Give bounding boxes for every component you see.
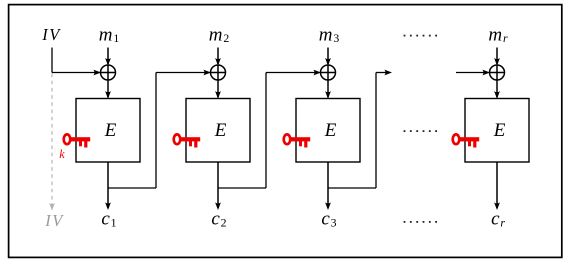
key icon k1 [64, 134, 90, 147]
xor gate X2 [211, 65, 226, 80]
ellipsis dots (top row) [404, 35, 437, 37]
wire IV passthrough (gray dashed) [49, 74, 55, 211]
wire chaining input into XOR_r [456, 70, 490, 76]
key icon k2 [174, 134, 201, 147]
wire XOR2 to E2 [215, 80, 221, 99]
key icon k_r [453, 134, 480, 147]
svg-text:E: E [324, 120, 337, 141]
wire E1 output to c1 [105, 162, 111, 210]
xor gate X_r [490, 65, 505, 80]
block cipher E1 (box) [76, 99, 140, 163]
wire m2 into XOR2 [215, 48, 221, 66]
wire E3 output to c3 [325, 162, 331, 210]
wire XOR3 to E3 [325, 80, 331, 99]
svg-text:k: k [59, 147, 65, 161]
wire feedback from c1 to XOR2 [108, 70, 211, 188]
wire m3 into XOR3 [325, 48, 331, 66]
wire XOR_r to E_r [494, 80, 500, 99]
xor gate X3 [321, 65, 336, 80]
wire E2 output to c2 [215, 162, 221, 210]
wire feedback from c3 to XOR4 [328, 70, 392, 188]
ellipsis dots (bottom row) [404, 221, 437, 223]
key icon k3 [284, 134, 311, 147]
wire m1 into XOR1 [105, 48, 111, 66]
svg-text:E: E [104, 120, 117, 141]
svg-text:E: E [214, 120, 227, 141]
svg-text:E: E [493, 120, 506, 141]
wire feedback from c2 to XOR3 [218, 70, 321, 188]
svg-text:IV: IV [41, 25, 61, 44]
xor gate X1 [101, 65, 116, 80]
wire m_r into XOR_r [494, 48, 500, 66]
block cipher E_r (box) [465, 99, 529, 163]
block cipher E3 (box) [296, 99, 360, 163]
wire XOR1 to E1 [105, 80, 111, 99]
wire E_r output to c_r [494, 162, 500, 210]
wire IV to XOR1 [52, 48, 101, 76]
block cipher E2 (box) [186, 99, 250, 163]
ellipsis dots (middle row) [404, 130, 437, 132]
svg-text:IV: IV [44, 211, 64, 230]
